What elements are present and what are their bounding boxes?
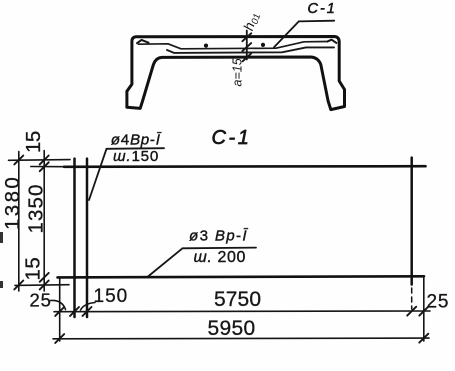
bottom dimension line row 1	[54, 310, 430, 313]
svg-text:1350: 1350	[25, 183, 48, 233]
extension line left wire-end	[59, 278, 61, 342]
callout leader	[274, 21, 299, 47]
mesh top wire	[64, 165, 426, 168]
flange underside step line	[167, 47, 334, 53]
extension line right wire-end	[423, 277, 425, 342]
svg-text:25: 25	[30, 289, 52, 310]
panel cross-section outline	[127, 37, 345, 110]
svg-text:150: 150	[94, 286, 129, 307]
svg-text:15: 15	[22, 131, 45, 153]
svg-text:a=15: a=15	[231, 58, 245, 86]
svg-text:1380: 1380	[1, 175, 24, 230]
label rule o4	[107, 147, 165, 150]
row1 tick at wire1	[70, 307, 79, 316]
tick at underside	[243, 53, 252, 61]
svg-text:C-1: C-1	[308, 1, 337, 17]
svg-text:ш. 200: ш. 200	[194, 249, 246, 266]
svg-text:25: 25	[427, 292, 450, 313]
transverse wire dot left	[204, 44, 208, 48]
row1 tick at right wire	[407, 307, 416, 316]
svg-text:5750: 5750	[214, 288, 261, 311]
right mesh hook	[327, 40, 336, 43]
tick inner bottom edge	[40, 281, 49, 290]
svg-text:5950: 5950	[208, 317, 256, 340]
vertical wire 1	[73, 159, 76, 317]
tick inner top edge	[40, 156, 49, 165]
svg-text:ø4Вр-Ī: ø4Вр-Ī	[111, 132, 162, 149]
leader hook for 25	[51, 300, 66, 309]
vertical wire right	[410, 158, 413, 285]
row1 tick at right wire end	[419, 307, 428, 316]
leader o3 to bottom wire	[148, 248, 183, 276]
tick at flange top	[242, 33, 251, 41]
leader hook for 150	[81, 303, 96, 311]
mesh bottom wire	[58, 276, 425, 277]
svg-text:h01: h01	[240, 10, 263, 33]
row1 tick at wire2	[83, 307, 92, 316]
transverse wire dot right	[261, 43, 265, 47]
scan blob left edge 2	[0, 281, 3, 288]
svg-text:ø3 Вр-Ī: ø3 Вр-Ī	[189, 228, 248, 245]
tick inner bottom wire	[40, 273, 49, 282]
mesh wire in section (thin line with end hooks)	[139, 42, 327, 49]
tick at mesh level	[242, 43, 251, 51]
row2 tick right	[419, 334, 428, 343]
dimension line 15/1350/15 (inner)	[43, 151, 45, 292]
leader o4 to wire 2	[89, 149, 107, 200]
extension line mesh bottom edge	[15, 284, 69, 287]
dimension line h01 / a=15	[246, 31, 248, 60]
tick outer bottom	[14, 281, 23, 290]
svg-text:15: 15	[22, 257, 45, 281]
tick inner top wire	[40, 162, 49, 171]
left mesh hook	[137, 40, 149, 43]
label rule o3	[183, 247, 257, 250]
tick outer top	[14, 156, 23, 165]
bottom dimension line row 2	[53, 337, 429, 340]
scan blob left edge 1	[0, 232, 3, 243]
svg-text:C-1: C-1	[212, 127, 252, 149]
row2 tick left	[55, 334, 64, 343]
dashed extension below right wire	[411, 288, 413, 309]
svg-text:ш.150: ш.150	[113, 148, 159, 165]
row1 tick at left wire end	[55, 307, 64, 316]
callout underline	[299, 20, 334, 23]
extension line mesh top edge	[9, 159, 71, 162]
dimension line 1380 (outer)	[18, 152, 20, 292]
vertical wire 2	[86, 159, 89, 317]
extension line top wire left	[31, 166, 65, 168]
